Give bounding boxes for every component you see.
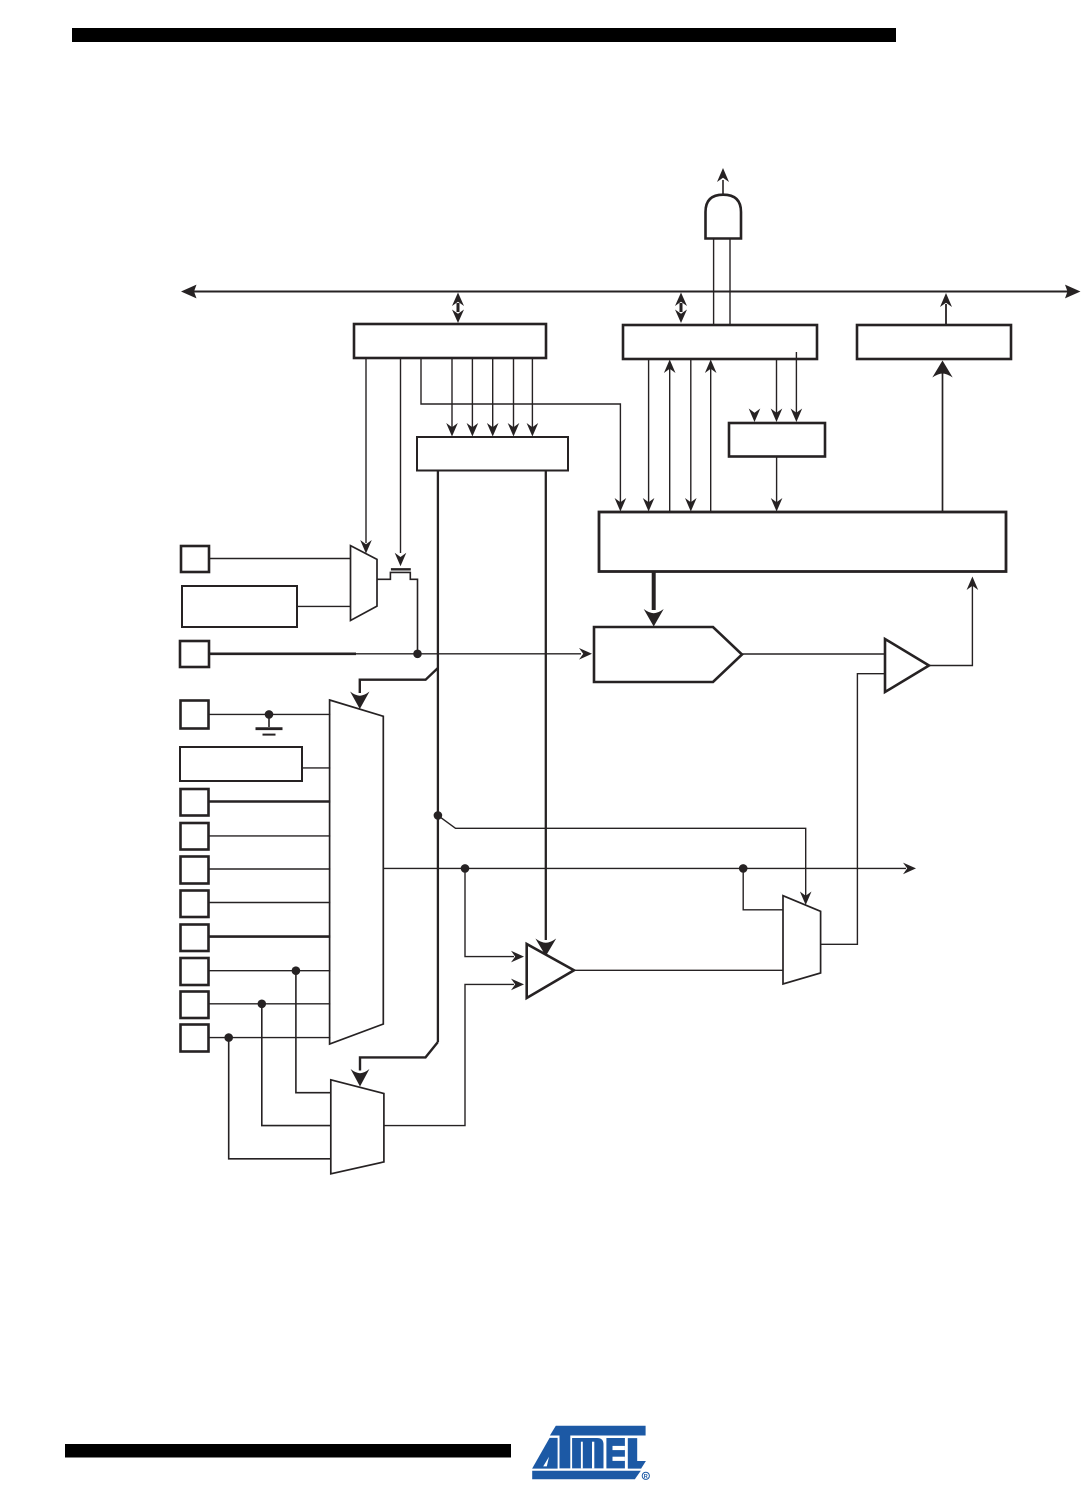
right mux [783, 896, 821, 984]
pin box 8 [181, 958, 209, 985]
wire count triangle to right mux [574, 969, 783, 971]
node output branch 2 [739, 864, 748, 873]
pin box 10 [181, 1025, 209, 1052]
register box 1 [354, 324, 546, 358]
wire box2 to small box a [776, 359, 778, 414]
wire branch to right mux [743, 868, 783, 909]
wire box1 to mid box b [471, 358, 473, 428]
thick wire wide box to pentagon [652, 572, 656, 611]
wire pentagon to buffer [742, 653, 885, 655]
small box [729, 423, 825, 457]
wire pin1 to big mux [209, 713, 331, 715]
pin box 1 [181, 701, 209, 729]
node pin8 branch [292, 966, 301, 975]
wire pin6 to big mux [209, 902, 331, 904]
wire box1 to mid box d [513, 358, 515, 428]
wire tall block to big mux [360, 668, 438, 693]
register box 2 [623, 325, 817, 359]
big mux [330, 700, 384, 1044]
pin box B [180, 641, 209, 667]
wire big mux output [383, 867, 906, 869]
wire box2 to small box b [795, 352, 797, 414]
bus right arrowhead [1065, 285, 1081, 299]
wire junction to pentagon with arrowhead [356, 653, 581, 655]
buffer triangle U2 [885, 639, 929, 692]
ground node [265, 710, 274, 719]
pin box 5 [181, 857, 209, 884]
footer bar [65, 1444, 511, 1458]
wire wide box to box2 b [710, 367, 712, 512]
wire pin7 thick to big mux [209, 935, 331, 938]
pass gate bar [391, 568, 411, 570]
pin box 9 [181, 992, 209, 1019]
oscillator box [182, 586, 297, 627]
AND gate input wire right [729, 239, 731, 326]
wire small box to wide box [776, 457, 778, 504]
wire box1 to mid box a [451, 358, 453, 428]
tall block right edge [545, 470, 547, 940]
wire pin8 to lower mux [296, 971, 332, 1093]
arrow tall block to count triangle [535, 939, 556, 957]
header bar [72, 28, 896, 42]
wire box1 to wide box (bent) [421, 358, 620, 503]
wire box1 to clock mux [365, 358, 367, 543]
count triangle U3 [527, 944, 574, 998]
node pin10 branch [224, 1033, 233, 1042]
AND gate U1 [706, 195, 742, 239]
Atmel logo [532, 1426, 649, 1480]
wire pin9 to big mux [209, 1003, 331, 1005]
node pin9 branch [258, 1000, 267, 1009]
bus left arrowhead [181, 285, 197, 299]
wire pin4 to big mux [209, 835, 331, 837]
wire box1 to pass gate [400, 358, 402, 553]
pass gate channel wire [377, 572, 418, 650]
wire pin B thick [209, 652, 356, 655]
double arrow bus to box2 [680, 303, 683, 312]
wire pin5 to big mux [209, 868, 331, 870]
AND gate output arrow [722, 180, 724, 196]
pin box 7 [181, 925, 209, 952]
svg-text:R: R [644, 1474, 648, 1480]
clock mux [351, 546, 378, 621]
pentagon control block [594, 627, 742, 682]
pin box 6 [181, 891, 209, 918]
wire box2 to wide box b [690, 359, 692, 503]
output arrowhead right [903, 863, 916, 875]
wire pin3 thick to big mux [209, 800, 331, 803]
wire wide box to box2 a [669, 367, 671, 512]
wire pin8 to big mux [209, 970, 331, 972]
wire pin A to clock mux [209, 558, 351, 560]
wire right mux output to buffer [821, 674, 885, 945]
double arrow bus to box1 [457, 303, 460, 312]
tall block left edge [437, 470, 439, 1042]
wire box3 to bus [945, 304, 947, 325]
wire oscillator to clock mux [297, 605, 351, 607]
wire control box to big mux [302, 767, 331, 769]
wire wide box to box3 [942, 372, 944, 512]
wire buffer to wide box [929, 585, 972, 666]
wide box [599, 512, 1006, 572]
ground [268, 714, 270, 727]
node output branch 1 [461, 864, 470, 873]
wire pin10 to big mux [209, 1037, 331, 1039]
register box 3 [857, 325, 1011, 359]
lower mux [331, 1080, 384, 1174]
pin box 3 [181, 789, 209, 816]
bus line (8-bit data bus) [194, 291, 1068, 293]
pin box 4 [181, 823, 209, 850]
pin box A [181, 546, 209, 572]
node junction clock [413, 650, 422, 659]
control register box [180, 747, 302, 781]
wire pin10 to lower mux [229, 1038, 332, 1159]
wire tall block to lower mux [360, 1042, 438, 1071]
wire box1 to mid box e [531, 358, 533, 428]
wire tall block to right mux [438, 815, 806, 896]
wire box2 to wide box a [648, 359, 650, 503]
wire box1 to mid box c [492, 358, 494, 428]
wire lower mux to count triangle input 2 [384, 984, 514, 1125]
wire pin9 to lower mux [262, 1004, 332, 1126]
AND gate input wire left [713, 239, 715, 326]
orphan arrowhead into small box [749, 409, 761, 423]
node on tall block left edge [434, 811, 443, 820]
mid box [417, 437, 568, 471]
wire branch to count triangle input 1 [465, 868, 514, 956]
